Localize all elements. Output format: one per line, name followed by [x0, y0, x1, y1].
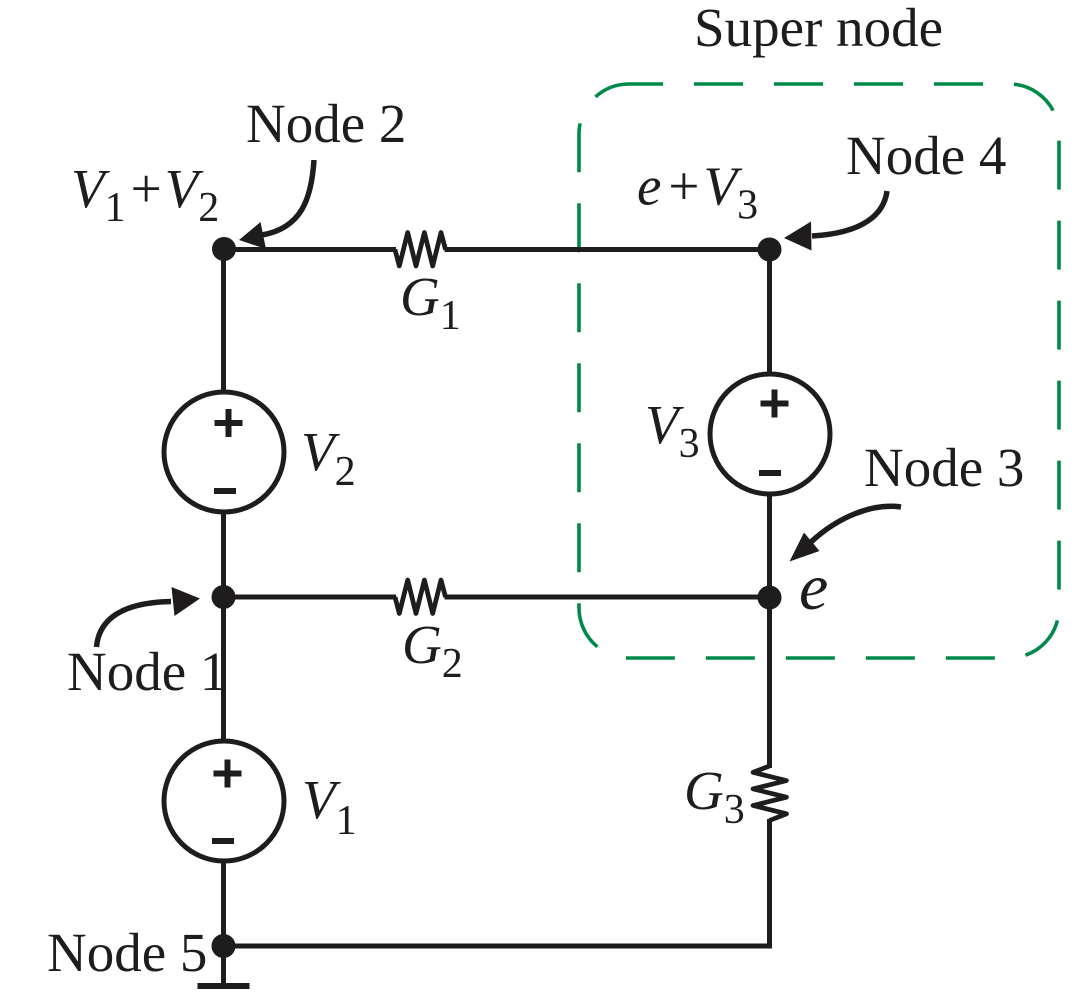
node 2 arrowhead: [239, 222, 266, 249]
wire: right rail vertical upper (node 4 to G3): [767, 250, 772, 769]
node 2 junction dot: [212, 237, 236, 261]
resistor G1 zigzag: [395, 233, 446, 267]
node 3 arrow curve: [811, 506, 901, 542]
V3 minus mark: [759, 470, 781, 476]
ground bar: [198, 983, 250, 989]
voltage source V3 circle: [710, 374, 830, 494]
node 4 junction dot: [758, 238, 782, 262]
wire: left rail vertical: [221, 250, 226, 947]
wire: bottom rail (node 5 to lower right corner): [224, 944, 773, 949]
node e junction dot: [758, 586, 782, 610]
svg-text:Node 1: Node 1: [67, 641, 227, 702]
node 3 arrowhead: [790, 533, 820, 562]
svg-text:e+V3: e+V3: [637, 156, 758, 229]
V2 minus mark: [214, 488, 236, 494]
resistor G2 zigzag: [395, 580, 446, 614]
V1 plus mark: [214, 771, 242, 777]
ground stub: [221, 946, 226, 986]
svg-text:Node 5: Node 5: [47, 922, 207, 983]
svg-text:G3: G3: [684, 760, 745, 833]
svg-text:Super node: Super node: [694, 0, 943, 58]
node 5 junction dot: [212, 934, 236, 958]
node 1 arrow curve: [97, 602, 172, 648]
svg-text:Node 2: Node 2: [246, 93, 406, 154]
wire: top rail left segment (node 2 to G1): [222, 247, 396, 252]
V3 plus mark: [761, 401, 789, 407]
wire: top rail right segment (G1 to node 4): [445, 247, 770, 252]
node 4 arrowhead: [784, 222, 812, 251]
svg-text:V1: V1: [302, 769, 357, 844]
svg-text:G2: G2: [402, 614, 463, 687]
V2 plus mark: [215, 420, 243, 426]
svg-text:V3: V3: [645, 394, 700, 467]
voltage source V1 circle: [164, 741, 284, 861]
node 1 junction dot: [212, 585, 236, 609]
svg-text:Node 4: Node 4: [846, 125, 1006, 186]
svg-text:Node 3: Node 3: [864, 437, 1024, 498]
wire: right rail vertical lower (G3 to bottom rail): [767, 819, 772, 946]
svg-text:V2: V2: [301, 421, 356, 495]
svg-text:G1: G1: [400, 266, 461, 339]
svg-text:V1+V2: V1+V2: [71, 158, 219, 231]
voltage source V2 circle: [164, 392, 284, 512]
svg-text:e: e: [799, 551, 828, 624]
node 1 arrowhead: [172, 587, 201, 616]
wire: middle rail left segment (node 1 to G2): [222, 595, 396, 600]
super node dashed boundary: [579, 84, 1059, 658]
resistor G3 zigzag (vertical): [753, 766, 787, 821]
wire: middle rail right segment (G2 to node e): [445, 595, 770, 600]
node 2 arrow curve: [262, 160, 314, 235]
node 4 arrow curve: [812, 191, 887, 236]
V1 minus mark: [212, 838, 234, 844]
